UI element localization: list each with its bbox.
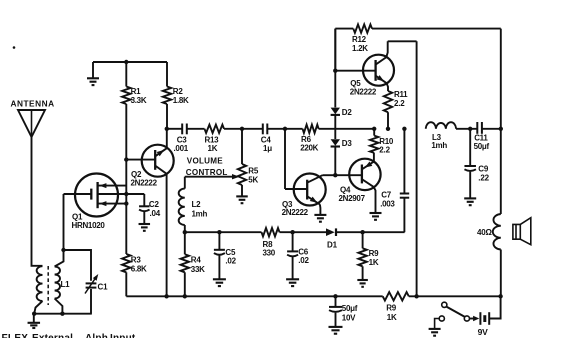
svg-text:.003: .003 <box>380 199 395 208</box>
ground under C9 <box>464 197 476 199</box>
svg-text:VOLUME: VOLUME <box>187 156 223 165</box>
ground under Q3 emitter <box>314 214 326 216</box>
wire <box>224 128 263 130</box>
inductor L1 secondary winding <box>55 250 64 267</box>
resistor R9 1K (detector load) <box>362 232 364 248</box>
svg-text:1μ: 1μ <box>263 144 272 153</box>
node R5 top <box>240 127 244 131</box>
capacitor C3 .001 <box>181 124 183 135</box>
ground under switch <box>435 319 440 329</box>
svg-text:2.2: 2.2 <box>379 146 390 155</box>
svg-text:R1: R1 <box>131 87 142 96</box>
node R9 top <box>360 230 364 234</box>
svg-text:D2: D2 <box>342 108 353 117</box>
svg-text:33K: 33K <box>191 265 205 274</box>
node tank bottom mid <box>60 312 64 316</box>
node C7 top <box>402 127 406 131</box>
wire top rail <box>93 61 167 63</box>
wire detector line <box>185 231 262 233</box>
svg-text:R8: R8 <box>263 240 274 249</box>
svg-text:External: External <box>32 333 73 338</box>
wire R1 bottom to R3 (bias line) <box>125 104 127 254</box>
node R11 bottom <box>386 127 390 131</box>
resistor R13 1K <box>205 125 225 133</box>
svg-text:40Ω: 40Ω <box>477 228 492 237</box>
svg-text:2N2222: 2N2222 <box>282 208 309 217</box>
svg-text:50μf: 50μf <box>474 142 490 151</box>
svg-text:CONTROL: CONTROL <box>186 168 228 177</box>
battery 9V <box>470 318 475 320</box>
svg-text:1K: 1K <box>387 313 397 322</box>
svg-text:R13: R13 <box>205 135 220 144</box>
node filter cap top <box>333 294 337 298</box>
svg-text:L2: L2 <box>192 200 202 209</box>
svg-text:330: 330 <box>263 249 276 258</box>
svg-text:2N2222: 2N2222 <box>350 88 377 97</box>
wiper arrow of R5 <box>185 176 236 178</box>
svg-text:2N2907: 2N2907 <box>339 194 366 203</box>
node R6 left / Q3 base feed <box>283 127 287 131</box>
diode D2 <box>331 108 340 115</box>
svg-text:.001: .001 <box>174 144 189 153</box>
node supply vertical <box>414 294 418 298</box>
ground under R9 <box>357 279 368 281</box>
node battery top <box>498 294 502 298</box>
wire <box>187 128 205 130</box>
node R4 bottom <box>183 294 187 298</box>
svg-text:FLEX: FLEX <box>2 333 29 338</box>
diode D1 <box>326 228 335 236</box>
svg-text:Q4: Q4 <box>340 185 351 194</box>
svg-text:50μf: 50μf <box>342 304 358 313</box>
svg-text:1mh: 1mh <box>192 209 208 218</box>
ground top-left <box>92 62 94 78</box>
wire gate to tank <box>63 194 65 250</box>
diode D3 <box>331 139 340 146</box>
svg-text:1K: 1K <box>369 258 379 267</box>
wire antenna feed <box>32 137 43 266</box>
capacitor C4 1u <box>262 124 264 135</box>
wire Q5 base vertical <box>334 29 336 108</box>
svg-text:R4: R4 <box>191 255 202 264</box>
svg-text:220K: 220K <box>300 143 318 152</box>
node tank bottom left <box>32 312 36 316</box>
svg-text:R12: R12 <box>352 35 367 44</box>
ground tank <box>33 314 35 323</box>
svg-text:1K: 1K <box>208 144 218 153</box>
svg-text:1.8K: 1.8K <box>173 96 189 105</box>
svg-text:2.2: 2.2 <box>394 99 405 108</box>
svg-text:R9: R9 <box>369 249 380 258</box>
svg-text:C3: C3 <box>177 135 188 144</box>
transistor Q1 HRN1020 <box>75 174 118 217</box>
svg-text:C9: C9 <box>478 164 489 173</box>
capacitor C11 50uf <box>476 122 478 134</box>
svg-text:R9: R9 <box>386 303 397 312</box>
node output right <box>499 127 503 131</box>
potentiometer R5 5K volume control <box>241 129 243 164</box>
resistor R4 33K <box>184 232 186 254</box>
resistor R3 6.8K <box>122 254 130 272</box>
ground under 50uf <box>329 326 343 328</box>
svg-text:C7: C7 <box>381 190 392 199</box>
ground under C5 <box>213 278 226 280</box>
transistor Q4 2N2907 <box>349 159 380 190</box>
node D3 / Q3 collector / Q4 base <box>333 173 337 177</box>
inductor speaker coil 40 ohm <box>493 214 501 250</box>
svg-text:.02: .02 <box>298 256 309 265</box>
svg-text:3.3K: 3.3K <box>131 96 147 105</box>
speck <box>13 46 16 49</box>
resistor R11 2.2 <box>384 91 392 112</box>
svg-text:1.2K: 1.2K <box>352 44 368 53</box>
resistor R9 1K (supply) <box>383 292 409 300</box>
wire tank bottom <box>34 313 92 315</box>
svg-text:Q5: Q5 <box>350 79 361 88</box>
capacitor C1 (variable) <box>64 250 92 281</box>
svg-text:.04: .04 <box>150 209 161 218</box>
svg-text:C1: C1 <box>98 283 109 292</box>
capacitor C7 .003 <box>403 129 405 193</box>
svg-text:D1: D1 <box>327 240 338 249</box>
svg-text:10V: 10V <box>342 313 356 322</box>
node R1 top <box>124 60 128 64</box>
node L2 bottom <box>183 230 187 234</box>
svg-text:R5: R5 <box>248 167 259 176</box>
resistor R6 220K <box>303 125 319 133</box>
node Q2 collector bottom <box>164 294 168 298</box>
antenna <box>18 110 45 137</box>
inductor L1 primary winding <box>37 266 43 301</box>
svg-text:6.8K: 6.8K <box>131 264 147 273</box>
inductor L3 1mh <box>426 122 456 129</box>
inductor L2 1mh <box>184 177 186 189</box>
transformer core L1 (dashed) <box>47 266 49 305</box>
svg-text:5K: 5K <box>248 176 258 185</box>
capacitor C2 .04 <box>143 194 145 206</box>
svg-text:D3: D3 <box>342 139 353 148</box>
transistor Q2 2N2222 <box>142 145 174 177</box>
ground under C2 <box>139 223 151 225</box>
node R10 top <box>372 127 376 131</box>
node Q1 source <box>124 201 128 205</box>
wire Q5 collector to supply <box>388 40 417 42</box>
resistor R1 3.3K <box>125 62 127 87</box>
wire <box>267 128 302 130</box>
resistor R12 1.2K <box>334 29 336 71</box>
resistor R10 2.2 <box>373 129 375 136</box>
svg-text:.22: .22 <box>478 173 489 182</box>
svg-text:R11: R11 <box>394 90 408 99</box>
svg-text:Input: Input <box>110 333 136 338</box>
resistor R2 1.8K <box>166 62 168 87</box>
node C6 top <box>290 230 294 234</box>
node tank top <box>61 248 65 252</box>
svg-text:1mh: 1mh <box>431 141 447 150</box>
svg-text:C4: C4 <box>261 135 272 144</box>
svg-text:C11: C11 <box>474 133 488 142</box>
capacitor C6 .02 <box>292 232 294 251</box>
svg-text:R2: R2 <box>173 87 184 96</box>
node Q5 base / D2 <box>333 69 337 73</box>
ground under R5 <box>236 195 248 197</box>
svg-text:R10: R10 <box>379 137 394 146</box>
transistor Q5 2N2222 <box>363 55 394 86</box>
svg-text:L1: L1 <box>61 280 71 289</box>
node C9 top <box>468 127 472 131</box>
node Q2 emitter / R2 <box>165 127 169 131</box>
capacitor 50uf 10V <box>335 296 337 307</box>
wire R12 to output node <box>372 28 501 30</box>
svg-text:Alph: Alph <box>85 333 108 338</box>
wire mid rail left <box>167 128 182 130</box>
speaker <box>513 224 520 239</box>
resistor R8 330 <box>262 228 280 236</box>
svg-text:9V: 9V <box>478 327 489 337</box>
svg-text:ANTENNA: ANTENNA <box>11 99 55 109</box>
svg-text:HRN1020: HRN1020 <box>72 221 106 230</box>
capacitor C9 .22 <box>469 129 471 166</box>
node Q2 base <box>124 157 128 161</box>
svg-text:2N2222: 2N2222 <box>131 178 158 187</box>
switch S1 <box>442 302 447 307</box>
wire bottom rail <box>126 295 382 297</box>
svg-text:.02: .02 <box>225 256 236 265</box>
svg-text:R3: R3 <box>131 256 142 265</box>
wire <box>456 128 477 130</box>
transistor Q3 2N2222 <box>294 174 326 206</box>
svg-text:C2: C2 <box>149 200 160 209</box>
ground under C6 <box>286 278 299 280</box>
capacitor C5 .02 <box>218 232 220 250</box>
node Q1 gate2 <box>124 192 128 196</box>
node C5 top <box>217 230 221 234</box>
ground under Q4 <box>370 212 382 214</box>
